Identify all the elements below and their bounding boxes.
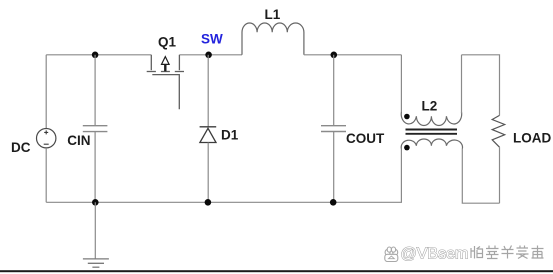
pin dot: L2 primary polarity (404, 114, 410, 120)
bottom frame line (0, 270, 553, 272)
transistor Q1 body-diode arrow (162, 57, 170, 65)
svg-text:COUT: COUT (346, 131, 385, 146)
wire: COUT top vertical (333, 55, 335, 126)
wire: LOAD bottom vertical (499, 147, 501, 203)
wire: rail down to L2 primary left (400, 55, 402, 112)
core of transformer L2 (406, 130, 458, 134)
wire: top right segment to LOAD (462, 55, 500, 116)
inductor L2 secondary winding (401, 139, 462, 149)
svg-text:CIN: CIN (67, 133, 90, 148)
svg-text:DC: DC (11, 140, 31, 155)
diode D1 (200, 127, 217, 143)
wire: CIN bottom vertical (94, 132, 96, 203)
wire: D1 anode to ground rail (207, 143, 209, 203)
wire: ground stub (94, 202, 96, 258)
pin dot: L2 secondary polarity (404, 145, 410, 151)
wire: L2 secondary right down (462, 149, 499, 203)
svg-text:L2: L2 (422, 99, 438, 114)
source DC (voltage source) (37, 129, 56, 148)
node: junction ground at D1 (205, 199, 212, 206)
wire: L2 primary right up to rail (461, 55, 463, 114)
node: junction CIN top (92, 52, 99, 59)
wire: left vertical top (rail to DC+) (45, 55, 47, 129)
svg-text:LOAD: LOAD (513, 130, 551, 145)
capacitor CIN (83, 126, 108, 132)
wire: DC bottom vertical (45, 148, 47, 202)
node: junction ground at CIN (92, 199, 99, 206)
svg-text:D1: D1 (221, 128, 239, 143)
node: junction ground at COUT (330, 199, 337, 206)
capacitor COUT (321, 126, 346, 132)
svg-text:Q1: Q1 (158, 35, 177, 50)
wire: SW to D1 cathode vertical (207, 55, 209, 127)
transistor Q1 (MOSFET) (147, 55, 184, 110)
svg-text:@VBsem: @VBsem (401, 246, 469, 263)
wire: CIN top vertical (94, 55, 96, 126)
node: SW junction (205, 52, 212, 59)
watermark icon (paw logo) (385, 247, 398, 262)
wire: L1 to output node rail (304, 54, 402, 56)
inductor L1 (242, 23, 304, 55)
wire: COUT bottom vertical (333, 132, 335, 203)
ground (83, 259, 109, 267)
node: junction output (COUT top) (331, 52, 338, 59)
watermark text CJK (drawn strokes) (471, 246, 544, 259)
wire: L2 secondary left down to ground rail (46, 149, 401, 203)
wire: top rail left (input to Q1) (46, 54, 151, 56)
wire: Q1 drain to SW rail (179, 54, 242, 56)
resistor LOAD (492, 115, 505, 147)
inductor L2 primary winding (401, 112, 461, 125)
svg-text:L1: L1 (265, 7, 281, 22)
svg-text:SW: SW (201, 31, 223, 46)
